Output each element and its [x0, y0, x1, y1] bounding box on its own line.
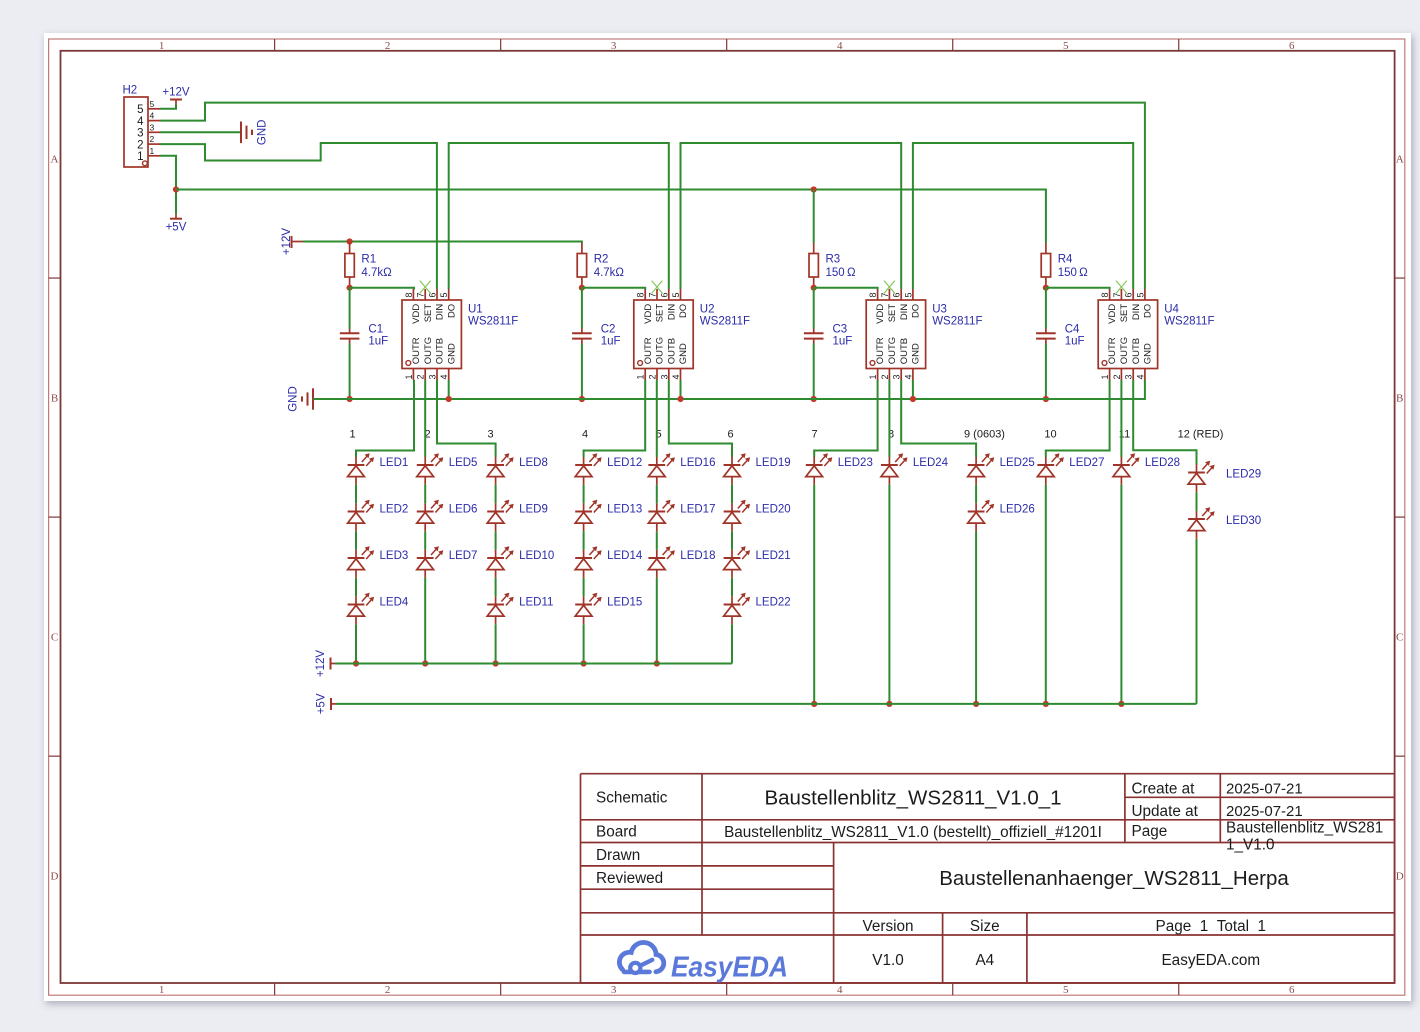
svg-text:R4: R4: [1058, 253, 1073, 265]
C4 value 1uF: [1065, 335, 1085, 347]
op-amp U1 WS2811F: [402, 289, 461, 380]
svg-text:9 (0603): 9 (0603): [964, 428, 1005, 440]
svg-text:GND: GND: [1143, 343, 1154, 364]
junction U3 GND: [910, 396, 916, 402]
svg-text:VDD: VDD: [411, 304, 422, 324]
ground GND (H2 pin3): [241, 120, 269, 146]
svg-text:LED1: LED1: [380, 457, 409, 469]
U3 pin names OUTR OUTG OUTB GND: [875, 337, 921, 364]
C3 label: [833, 323, 848, 335]
svg-text:VDD: VDD: [875, 304, 886, 324]
svg-text:4: 4: [582, 428, 588, 440]
svg-text:D: D: [51, 871, 59, 883]
wire LED10 to LED11: [495, 578, 497, 597]
svg-text:LED8: LED8: [519, 457, 548, 469]
svg-text:5: 5: [671, 292, 681, 297]
junction VDD node U2: [579, 285, 585, 291]
svg-text:150 Ω: 150 Ω: [1058, 267, 1088, 279]
svg-text:OUTG: OUTG: [1119, 337, 1130, 364]
svg-text:4: 4: [1135, 374, 1145, 379]
svg-text:2025-07-21: 2025-07-21: [1226, 803, 1303, 820]
U2 value WS2811F: [700, 316, 750, 328]
wire VDD node to C4: [1045, 288, 1047, 329]
wire LED5 to LED6: [424, 485, 426, 504]
wire column 5 to +12V rail: [656, 578, 658, 664]
junction column 2 +12V: [422, 660, 428, 666]
svg-text:4: 4: [837, 40, 843, 52]
LED LED23: [806, 453, 873, 485]
svg-text:4: 4: [837, 984, 843, 996]
svg-text:1_V1.0: 1_V1.0: [1226, 836, 1274, 853]
svg-text:DIN: DIN: [1131, 304, 1142, 321]
wire U2 DO to U3 DIN: [681, 143, 902, 289]
LED LED2: [348, 500, 409, 532]
wire column 6 to +12V rail: [731, 624, 733, 663]
svg-text:C2: C2: [601, 323, 616, 335]
LED LED11: [487, 593, 553, 625]
LED LED25: [968, 453, 1035, 485]
LED LED8: [487, 453, 548, 485]
svg-text:LED30: LED30: [1226, 515, 1261, 527]
svg-text:DIN: DIN: [899, 304, 910, 321]
svg-text:A4: A4: [975, 952, 994, 969]
svg-text:U4: U4: [1164, 304, 1179, 316]
wire C2 to GND rail: [581, 344, 583, 400]
svg-text:DO: DO: [446, 304, 457, 318]
svg-text:U1: U1: [468, 304, 483, 316]
svg-text:+5V: +5V: [166, 222, 187, 234]
svg-text:OUTG: OUTG: [423, 337, 434, 364]
LED LED13: [575, 500, 642, 532]
svg-text:LED26: LED26: [1000, 504, 1035, 516]
wire column 11 to +5V rail: [1120, 485, 1122, 704]
U1 pin numbers 1 2 3 4: [404, 374, 449, 379]
wire column 1 to +12V rail: [355, 624, 357, 663]
svg-text:8: 8: [404, 292, 414, 297]
svg-text:R3: R3: [826, 253, 841, 265]
svg-text:1uF: 1uF: [833, 335, 853, 347]
junction +5V to R3: [811, 186, 817, 192]
svg-text:5: 5: [439, 292, 449, 297]
R2 label: [594, 253, 609, 265]
R4 value 150 Ω: [1058, 267, 1088, 279]
junction C3 GND: [811, 396, 817, 402]
svg-text:Baustellenblitz_WS2811_V1.0 (b: Baustellenblitz_WS2811_V1.0 (bestellt)_o…: [724, 824, 1102, 841]
U4 pin numbers 8 7 6 5: [1100, 292, 1145, 297]
wire LED13 to LED14: [583, 531, 585, 550]
svg-text:1: 1: [404, 374, 414, 379]
svg-text:Schematic: Schematic: [596, 789, 668, 806]
svg-text:LED7: LED7: [449, 550, 478, 562]
svg-text:1: 1: [868, 374, 878, 379]
svg-text:LED16: LED16: [680, 457, 715, 469]
svg-text:LED19: LED19: [756, 457, 791, 469]
svg-text:C: C: [51, 632, 58, 644]
wire U2 OUTR to column 4: [584, 380, 646, 457]
svg-text:150 Ω: 150 Ω: [826, 267, 856, 279]
svg-text:LED20: LED20: [756, 504, 791, 516]
LED LED12: [575, 453, 642, 485]
junction column 9 +5V: [973, 701, 979, 707]
wire C3 to GND rail: [813, 344, 815, 400]
wire U1 OUTG to column 2: [424, 380, 426, 457]
wire U3 OUTB to column 9: [901, 380, 976, 457]
svg-text:R2: R2: [594, 253, 609, 265]
U4 reference label: [1164, 304, 1179, 316]
wire VDD node to C2: [581, 288, 583, 329]
svg-text:LED3: LED3: [380, 550, 409, 562]
U3 reference label: [932, 304, 947, 316]
svg-text:SET: SET: [423, 304, 434, 323]
svg-text:3: 3: [137, 128, 143, 140]
C3 value 1uF: [833, 335, 853, 347]
power flag +12V (H2 pin5): [162, 87, 190, 105]
resistor R3: [809, 243, 818, 288]
junction +12V at R1: [347, 238, 353, 244]
svg-text:LED9: LED9: [519, 504, 548, 516]
LED LED3: [348, 546, 409, 578]
svg-text:VDD: VDD: [643, 304, 654, 324]
R1 value 4.7kΩ: [361, 267, 392, 279]
wire column 4 to +12V rail: [583, 624, 585, 663]
junction column 5 +12V: [654, 660, 660, 666]
svg-text:8: 8: [636, 292, 646, 297]
svg-text:C1: C1: [368, 323, 383, 335]
svg-text:3: 3: [659, 374, 669, 379]
svg-text:Create at: Create at: [1132, 781, 1196, 798]
svg-text:OUTR: OUTR: [1107, 337, 1118, 364]
svg-text:H2: H2: [123, 85, 138, 97]
junction column 8 +5V: [886, 701, 892, 707]
svg-text:LED2: LED2: [380, 504, 409, 516]
resistor R1: [345, 243, 354, 288]
C2 label: [601, 323, 616, 335]
junction column 7 +5V: [811, 701, 817, 707]
C4 label: [1065, 323, 1080, 335]
svg-text:DO: DO: [1143, 304, 1154, 318]
svg-text:1uF: 1uF: [601, 335, 621, 347]
svg-text:Version: Version: [862, 918, 913, 935]
wire LED25 to LED26: [975, 485, 977, 504]
svg-text:Update at: Update at: [1132, 803, 1199, 820]
junction column 4 +12V: [581, 660, 587, 666]
wire column 10 to +5V rail: [1045, 485, 1047, 704]
resistor R2: [577, 243, 586, 288]
U3 pin numbers 1 2 3 4: [868, 374, 913, 379]
wire C1 to GND rail: [349, 344, 351, 400]
junction C1 GND: [347, 396, 353, 402]
LED LED14: [575, 546, 643, 578]
svg-text:Baustellenblitz_WS281: Baustellenblitz_WS281: [1226, 820, 1383, 837]
svg-text:LED25: LED25: [1000, 457, 1035, 469]
U4 pin numbers 1 2 3 4: [1100, 374, 1145, 379]
H2 pin numbers: [150, 99, 155, 156]
capacitor C3: [804, 329, 824, 344]
wire H2 pin4 to U4 DO (top bus): [160, 103, 1145, 289]
svg-text:2: 2: [385, 984, 391, 996]
svg-text:+12V: +12V: [162, 87, 190, 99]
svg-text:3: 3: [892, 374, 902, 379]
svg-text:Reviewed: Reviewed: [596, 870, 663, 887]
LED LED1: [348, 453, 409, 485]
svg-text:5: 5: [137, 104, 143, 116]
LED LED29: [1188, 461, 1261, 493]
wire U3 GND pin to rail: [912, 380, 914, 399]
svg-text:GND: GND: [678, 343, 689, 364]
op-amp U3 WS2811F: [866, 289, 925, 380]
wire U2 OUTB to column 6: [669, 380, 732, 457]
svg-text:OUTR: OUTR: [643, 337, 654, 364]
U2 reference label: [700, 304, 715, 316]
svg-text:3: 3: [611, 984, 617, 996]
U3 pin names VDD SET DIN DO: [875, 304, 921, 324]
svg-text:1uF: 1uF: [368, 335, 388, 347]
wire +12V LED rail: [335, 663, 732, 665]
LED LED21: [724, 546, 791, 578]
svg-text:LED21: LED21: [756, 550, 791, 562]
svg-text:C3: C3: [833, 323, 848, 335]
svg-text:GND: GND: [257, 120, 269, 146]
wire R2 to U2 VDD: [582, 288, 645, 290]
svg-text:1: 1: [137, 151, 143, 163]
svg-text:2: 2: [416, 374, 426, 379]
svg-text:C: C: [1396, 632, 1403, 644]
wire LED9 to LED10: [495, 531, 497, 550]
svg-text:Page 1 Total 1: Page 1 Total 1: [1156, 918, 1267, 935]
svg-text:LED29: LED29: [1226, 469, 1261, 481]
LED LED6: [417, 500, 478, 532]
svg-text:3: 3: [611, 40, 617, 52]
junction U2 GND: [677, 396, 683, 402]
LED LED10: [487, 546, 554, 578]
svg-text:A: A: [51, 154, 59, 166]
wire +5V down to R3: [813, 190, 815, 244]
R3 value 150 Ω: [826, 267, 856, 279]
svg-text:6: 6: [1124, 292, 1134, 297]
connector H2: [124, 97, 160, 167]
power flag +12V (R1 R2 supply): [281, 228, 303, 256]
U1 pin names OUTR OUTG OUTB GND: [411, 337, 457, 364]
power flag +12V (LED rail): [315, 650, 335, 678]
junction column 10 +5V: [1043, 701, 1049, 707]
svg-text:EasyEDA.com: EasyEDA.com: [1161, 952, 1260, 969]
svg-text:3: 3: [428, 374, 438, 379]
svg-text:5: 5: [903, 292, 913, 297]
wire U1 OUTB to column 3: [437, 380, 496, 457]
wire U1 OUTR to column 1: [356, 380, 414, 457]
svg-text:Size: Size: [970, 918, 1000, 935]
wire H2 pin1 to +5V: [160, 156, 176, 214]
R4 label: [1058, 253, 1073, 265]
power flag +5V (LED rail): [316, 693, 337, 714]
wire LED21 to LED22: [731, 578, 733, 597]
svg-text:Drawn: Drawn: [596, 847, 640, 864]
ground GND (rail): [288, 386, 314, 412]
svg-text:LED14: LED14: [607, 550, 643, 562]
junction +5V at H2: [173, 186, 179, 192]
svg-text:LED11: LED11: [519, 597, 553, 609]
svg-text:6: 6: [1289, 40, 1295, 52]
svg-text:SET: SET: [887, 304, 898, 323]
LED LED20: [724, 500, 791, 532]
svg-text:C4: C4: [1065, 323, 1080, 335]
LED LED28: [1113, 453, 1180, 485]
junction column 3 +12V: [493, 660, 499, 666]
wire U3 DO to U4 DIN: [913, 143, 1133, 289]
svg-text:SET: SET: [1119, 304, 1130, 323]
svg-text:DO: DO: [678, 304, 689, 318]
wire VDD node to C3: [813, 288, 815, 329]
junction VDD node U1: [347, 285, 353, 291]
wire U4 OUTG to column 11: [1120, 380, 1122, 457]
wire H2 pin5 to +12V: [160, 105, 176, 109]
U1 pin numbers 8 7 6 5: [404, 292, 449, 297]
wire LED29 to LED30: [1196, 492, 1198, 511]
op-amp U2 WS2811F: [634, 289, 693, 380]
wire U3 OUTG to column 8: [888, 380, 890, 457]
junction VDD node U3: [811, 285, 817, 291]
svg-text:B: B: [51, 393, 58, 405]
LED LED7: [417, 546, 478, 578]
LED LED26: [968, 500, 1035, 532]
svg-text:6: 6: [1289, 984, 1295, 996]
wire U4 OUTB to column 12: [1133, 380, 1196, 465]
svg-text:6: 6: [727, 428, 733, 440]
H2 reference label: [123, 85, 138, 97]
wire R4 to U4 VDD: [1046, 288, 1110, 290]
wire column 7 to +5V rail: [813, 485, 815, 704]
U2 pin names VDD SET DIN DO: [643, 304, 689, 324]
U2 pin numbers 1 2 3 4: [636, 374, 681, 379]
svg-text:GND: GND: [911, 343, 922, 364]
wire LED19 to LED20: [731, 485, 733, 504]
svg-text:LED10: LED10: [519, 550, 554, 562]
svg-text:LED18: LED18: [680, 550, 715, 562]
svg-text:Board: Board: [596, 824, 637, 841]
U3 value WS2811F: [932, 316, 982, 328]
svg-text:A: A: [1396, 154, 1404, 166]
no-connect X on U3 SET: [884, 281, 895, 294]
svg-text:LED24: LED24: [913, 457, 949, 469]
capacitor C1: [340, 329, 360, 344]
svg-text:+5V: +5V: [316, 693, 328, 714]
U4 pin names VDD SET DIN DO: [1107, 304, 1153, 324]
svg-text:U3: U3: [932, 304, 947, 316]
capacitor C4: [1036, 329, 1056, 344]
svg-text:LED17: LED17: [680, 504, 715, 516]
LED LED16: [648, 453, 715, 485]
junction column 11 +5V: [1118, 701, 1124, 707]
wire U4 OUTR to column 10: [1046, 380, 1110, 457]
svg-text:4: 4: [903, 374, 913, 379]
wire +12V to R1 R2: [303, 242, 582, 244]
wire +5V bus to R3 and R4: [176, 190, 1046, 244]
svg-text:5: 5: [150, 99, 155, 109]
svg-text:5: 5: [1135, 292, 1145, 297]
svg-text:8: 8: [1100, 292, 1110, 297]
wire column 9 to +5V rail: [975, 531, 977, 704]
wire LED20 to LED21: [731, 531, 733, 550]
svg-text:8: 8: [868, 292, 878, 297]
svg-text:5: 5: [1063, 984, 1069, 996]
U1 value WS2811F: [468, 316, 518, 328]
svg-text:OUTB: OUTB: [435, 338, 446, 364]
svg-text:4: 4: [439, 374, 449, 379]
svg-text:U2: U2: [700, 304, 715, 316]
svg-text:2: 2: [880, 374, 890, 379]
svg-text:2: 2: [1112, 374, 1122, 379]
no-connect X on U1 SET: [420, 281, 431, 294]
wire U1 GND pin to rail: [448, 380, 450, 399]
LED LED30: [1188, 507, 1261, 539]
svg-text:1: 1: [1100, 374, 1110, 379]
svg-text:7: 7: [811, 428, 817, 440]
wire LED17 to LED18: [656, 531, 658, 550]
svg-text:SET: SET: [655, 304, 666, 323]
LED LED27: [1037, 453, 1104, 485]
LED LED5: [417, 453, 478, 485]
svg-text:2: 2: [150, 134, 155, 144]
svg-text:DIN: DIN: [666, 304, 677, 321]
svg-text:DO: DO: [911, 304, 922, 318]
C1 value 1uF: [368, 335, 388, 347]
wire LED8 to LED9: [495, 485, 497, 504]
svg-text:OUTG: OUTG: [887, 337, 898, 364]
LED LED19: [724, 453, 791, 485]
svg-text:DIN: DIN: [435, 304, 446, 321]
svg-text:LED28: LED28: [1145, 457, 1180, 469]
resistor R4: [1041, 243, 1050, 288]
svg-text:OUTR: OUTR: [875, 337, 886, 364]
svg-text:6: 6: [892, 292, 902, 297]
svg-text:OUTB: OUTB: [1131, 338, 1142, 364]
LED LED18: [648, 546, 715, 578]
svg-text:VDD: VDD: [1107, 304, 1118, 324]
wire U2 OUTG to column 5: [656, 380, 658, 457]
svg-text:Page: Page: [1132, 823, 1168, 840]
svg-text:OUTR: OUTR: [411, 337, 422, 364]
svg-text:LED27: LED27: [1069, 457, 1104, 469]
svg-text:OUTB: OUTB: [666, 338, 677, 364]
wire U2 GND pin to rail: [680, 380, 682, 399]
svg-text:4.7kΩ: 4.7kΩ: [594, 267, 625, 279]
U4 value WS2811F: [1164, 316, 1214, 328]
svg-text:6: 6: [659, 292, 669, 297]
svg-text:WS2811F: WS2811F: [1164, 316, 1214, 328]
junction VDD node U4: [1043, 285, 1049, 291]
svg-text:1: 1: [159, 984, 165, 996]
LED LED22: [724, 593, 791, 625]
wire column 12 to +5V rail: [1196, 539, 1198, 704]
node channel labels 1-12: [349, 428, 1223, 440]
U1 pin names VDD SET DIN DO: [411, 304, 457, 324]
svg-text:LED5: LED5: [449, 457, 478, 469]
U2 pin names OUTR OUTG OUTB GND: [643, 337, 689, 364]
svg-text:B: B: [1396, 393, 1403, 405]
H2 pin side numbers 5-1: [137, 104, 144, 163]
wire column 3 to +12V rail: [495, 624, 497, 663]
svg-text:5: 5: [1063, 40, 1069, 52]
svg-text:1: 1: [636, 374, 646, 379]
wire LED2 to LED3: [355, 531, 357, 550]
svg-text:LED4: LED4: [380, 597, 409, 609]
wire VDD node to C1: [349, 288, 351, 329]
wire LED14 to LED15: [583, 578, 585, 597]
svg-text:4: 4: [150, 111, 155, 121]
junction C4 GND: [1043, 396, 1049, 402]
svg-text:LED12: LED12: [607, 457, 642, 469]
svg-text:2: 2: [137, 139, 143, 151]
